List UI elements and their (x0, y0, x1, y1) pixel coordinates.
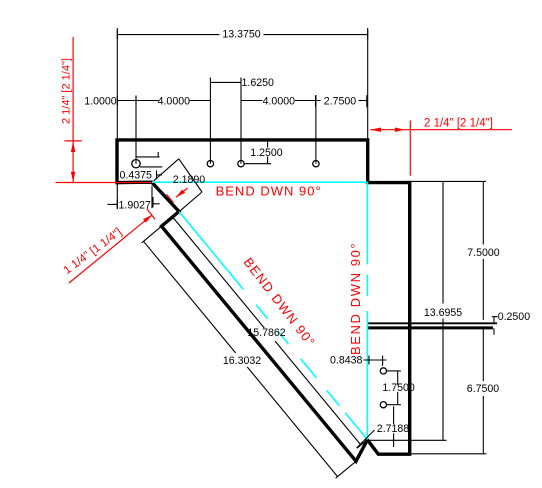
hole H5 (380, 368, 386, 374)
hole H6 (380, 402, 386, 408)
svg-text:7.5000: 7.5000 (467, 247, 500, 259)
svg-text:2.1890: 2.1890 (173, 174, 206, 186)
dim 7.5000 / 6.7500 (411, 181, 486, 453)
svg-text:0.4375: 0.4375 (120, 169, 153, 181)
svg-text:4.0000: 4.0000 (158, 96, 191, 108)
svg-text:BEND DWN 90°: BEND DWN 90° (348, 242, 363, 355)
red dim 2 1/4 top right (370, 120, 512, 175)
dim 15.7862 (171, 212, 375, 449)
svg-text:1.9027: 1.9027 (119, 200, 152, 212)
bend line diagonal (cyan dashed) (179, 212, 367, 440)
red arrow right (395, 128, 406, 132)
red arrow left (370, 128, 381, 132)
svg-text:1.6250: 1.6250 (242, 77, 275, 89)
dim 1.9027 (108, 186, 160, 209)
svg-text:2 1/4" [2 1/4"]: 2 1/4" [2 1/4"] (61, 58, 73, 124)
dim 2.7188 (393, 406, 395, 447)
svg-text:2.7188: 2.7188 (377, 423, 410, 435)
dim chain 1.0000 / 4.0000 / 4.0000 / 2.7500 (117, 95, 367, 107)
dim 0.8438 (364, 356, 387, 366)
svg-text:1.0000: 1.0000 (84, 96, 117, 108)
red dim 1 1/4 diagonal (69, 188, 188, 283)
dim 0.2500 (492, 317, 498, 335)
svg-text:1.2500: 1.2500 (250, 147, 283, 159)
bend line right (cyan) (366, 182, 368, 264)
dim 16.3032 (142, 226, 356, 478)
hole H3 (238, 161, 244, 167)
svg-text:16.3032: 16.3032 (223, 355, 261, 367)
dim 1.7500 (387, 371, 401, 405)
svg-text:0.8438: 0.8438 (330, 354, 363, 366)
slot lower edge (368, 326, 493, 329)
svg-text:15.7862: 15.7862 (247, 327, 285, 339)
dim 2.1890 (154, 159, 203, 212)
hole H1 (132, 160, 140, 168)
bend line top (cyan) (152, 181, 367, 183)
svg-text:2.7500: 2.7500 (324, 96, 357, 108)
svg-text:6.7500: 6.7500 (467, 383, 500, 395)
slot upper edge (368, 322, 497, 324)
hole H2 (207, 161, 213, 167)
svg-text:13.3750: 13.3750 (222, 29, 260, 41)
red arrow up (71, 142, 75, 153)
svg-text:BEND DWN 90°: BEND DWN 90° (216, 183, 322, 198)
svg-text:1.7500: 1.7500 (382, 382, 415, 394)
dim 1.2500 (244, 142, 271, 164)
part outline (117, 140, 410, 461)
dim 0.4375 leader (136, 152, 163, 180)
svg-text:4.0000: 4.0000 (263, 96, 296, 108)
red arrow down (71, 172, 75, 183)
svg-text:13.6955: 13.6955 (424, 307, 462, 319)
dim 13.6955 (368, 181, 486, 440)
red dim 2 1/4 left (56, 37, 152, 183)
svg-text:2 1/4" [2 1/4"]: 2 1/4" [2 1/4"] (424, 117, 493, 129)
red arrow diag tip (143, 215, 152, 223)
hole H4 (313, 161, 319, 167)
red arrow diag tip2 (176, 190, 185, 198)
dim 13.3750 (117, 28, 367, 209)
dim 1.6250 (136, 78, 316, 164)
svg-text:0.2500: 0.2500 (498, 311, 531, 323)
